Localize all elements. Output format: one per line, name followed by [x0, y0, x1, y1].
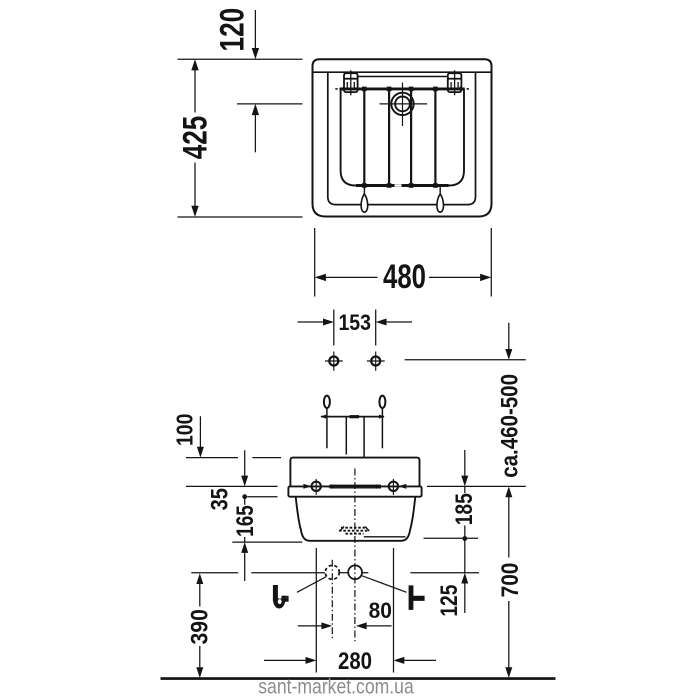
svg-text:425: 425	[176, 116, 214, 160]
svg-text:280: 280	[338, 648, 372, 675]
svg-text:165: 165	[232, 505, 259, 537]
svg-text:35: 35	[207, 488, 234, 510]
svg-text:ca.460-500: ca.460-500	[496, 374, 523, 478]
svg-text:153: 153	[338, 310, 371, 335]
svg-text:80: 80	[369, 598, 392, 623]
svg-text:100: 100	[172, 414, 198, 447]
svg-text:125: 125	[436, 585, 463, 617]
svg-text:390: 390	[187, 609, 214, 644]
svg-text:185: 185	[451, 493, 478, 525]
svg-text:700: 700	[497, 563, 524, 598]
svg-text:sant-market.com.ua: sant-market.com.ua	[258, 676, 414, 699]
svg-text:480: 480	[383, 258, 426, 296]
svg-text:120: 120	[213, 8, 251, 52]
